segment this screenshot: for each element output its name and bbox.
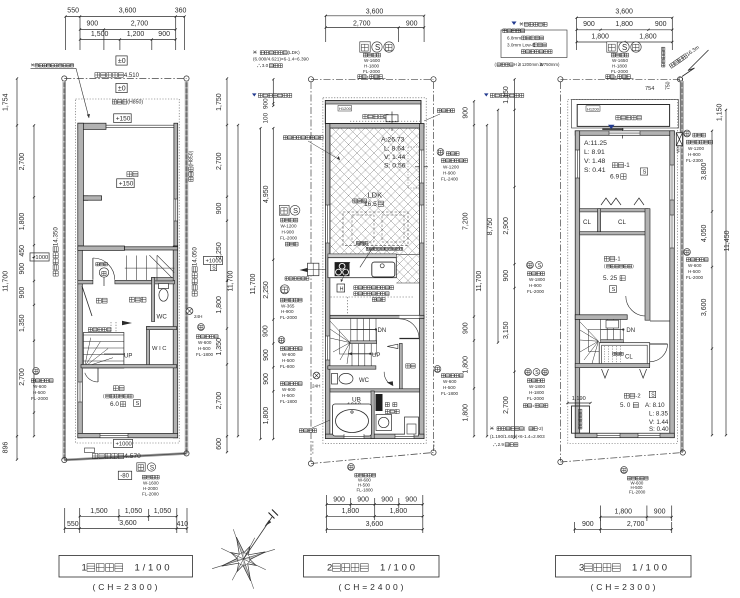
svg-text:900: 900 <box>655 21 667 28</box>
svg-text:H-500: H-500 <box>33 390 46 395</box>
svg-text:1,800: 1,800 <box>463 404 470 422</box>
svg-text:W-1200: W-1200 <box>281 224 297 229</box>
svg-text:1,754: 1,754 <box>3 93 10 111</box>
svg-text:3,600: 3,600 <box>701 298 708 316</box>
svg-text:S: S <box>622 43 627 52</box>
svg-text:2,250: 2,250 <box>216 242 223 260</box>
svg-text:1,500: 1,500 <box>91 31 109 38</box>
svg-text:A:11.25: A:11.25 <box>584 140 607 147</box>
svg-text:900: 900 <box>87 21 99 28</box>
svg-text:896: 896 <box>3 442 10 454</box>
svg-text:1/100: 1/100 <box>135 562 170 573</box>
svg-text:W-1650: W-1650 <box>612 58 628 63</box>
svg-text:S: S <box>538 263 542 269</box>
svg-text:FL-2000: FL-2000 <box>280 236 298 241</box>
svg-text:11,700: 11,700 <box>3 271 10 292</box>
svg-text:750mm): 750mm) <box>544 62 560 67</box>
svg-text:4.510: 4.510 <box>124 73 140 79</box>
svg-text:S: S <box>212 265 216 271</box>
svg-text:S: S <box>150 464 154 471</box>
svg-text:V: 1.44: V: 1.44 <box>384 154 406 161</box>
svg-text:900: 900 <box>405 497 417 504</box>
svg-text:14.350: 14.350 <box>53 227 60 246</box>
svg-text:H-500: H-500 <box>282 393 295 398</box>
svg-text:550: 550 <box>67 521 79 528</box>
svg-text:V: 1.48: V: 1.48 <box>584 158 606 165</box>
svg-text:3,600: 3,600 <box>366 8 384 15</box>
svg-text:1,750: 1,750 <box>216 93 223 111</box>
svg-text:6.8mm: 6.8mm <box>507 35 521 40</box>
svg-text:2,900: 2,900 <box>503 217 510 235</box>
svg-text:3.0: 3.0 <box>262 63 269 68</box>
svg-text:+150: +150 <box>119 181 134 188</box>
svg-text:A:26.73: A:26.73 <box>381 137 405 144</box>
svg-text:L: 8.35: L: 8.35 <box>649 411 668 418</box>
svg-text:UP: UP <box>372 353 380 359</box>
svg-text:H-1800: H-1800 <box>612 64 628 69</box>
svg-text:-80: -80 <box>120 474 129 480</box>
svg-text:3,600: 3,600 <box>615 9 633 16</box>
svg-text:S: 0.41: S: 0.41 <box>584 167 606 174</box>
svg-text:FL-2000: FL-2000 <box>527 396 545 401</box>
svg-text:2,700: 2,700 <box>353 20 371 27</box>
svg-text:CL: CL <box>618 219 626 226</box>
svg-text:WM: WM <box>676 145 681 153</box>
svg-text:550: 550 <box>67 8 79 15</box>
svg-text:W-1800: W-1800 <box>529 277 545 282</box>
svg-text:(CH=2400): (CH=2400) <box>339 582 404 592</box>
svg-text:2,700: 2,700 <box>19 153 26 171</box>
svg-text:S: S <box>535 370 539 376</box>
svg-text:900: 900 <box>263 373 270 385</box>
svg-text:H1200: H1200 <box>339 106 352 111</box>
svg-text:900: 900 <box>19 263 26 275</box>
svg-text:900: 900 <box>654 509 666 516</box>
svg-text:1,800: 1,800 <box>342 508 360 515</box>
svg-text:7,200: 7,200 <box>463 212 470 230</box>
svg-text:1,050: 1,050 <box>125 508 143 515</box>
svg-text:W-1800: W-1800 <box>529 384 545 389</box>
svg-text:754: 754 <box>645 86 654 92</box>
svg-text:2.9: 2.9 <box>498 442 505 447</box>
svg-text:1,150: 1,150 <box>717 103 724 121</box>
svg-text:2,700: 2,700 <box>216 392 223 410</box>
svg-text:(CH=2300): (CH=2300) <box>93 582 158 592</box>
svg-text:FL-1800: FL-1800 <box>357 488 374 493</box>
svg-text:11,700: 11,700 <box>228 271 235 292</box>
svg-text:900: 900 <box>381 497 393 504</box>
svg-text:6.0: 6.0 <box>110 401 119 408</box>
svg-text:DN: DN <box>378 328 387 334</box>
svg-text:900: 900 <box>463 107 470 119</box>
svg-text:W-1200: W-1200 <box>688 146 704 151</box>
svg-text:H: H <box>340 287 344 293</box>
svg-text:(6.000/4.621)×6-1.4=6.390: (6.000/4.621)×6-1.4=6.390 <box>253 57 309 62</box>
svg-text:3,600: 3,600 <box>119 520 137 527</box>
svg-text:W I C: W I C <box>152 346 167 352</box>
svg-text:H-900: H-900 <box>529 283 542 288</box>
svg-text:W-600: W-600 <box>443 379 457 384</box>
svg-text:1/100: 1/100 <box>380 562 415 573</box>
svg-text:(H850): (H850) <box>127 100 143 106</box>
svg-text:24H: 24H <box>194 314 202 319</box>
svg-text:1,800: 1,800 <box>19 213 26 231</box>
svg-text:3,600: 3,600 <box>119 8 137 15</box>
svg-text:900: 900 <box>263 325 270 337</box>
svg-text:FL-2000: FL-2000 <box>629 490 646 495</box>
svg-text:(H850): (H850) <box>189 150 195 166</box>
svg-text:1,800: 1,800 <box>615 509 633 516</box>
svg-text:1/100: 1/100 <box>632 562 667 573</box>
svg-text:900: 900 <box>158 31 170 38</box>
svg-text:2,700: 2,700 <box>19 368 26 386</box>
svg-text:H-900: H-900 <box>282 230 295 235</box>
svg-text:H-1800: H-1800 <box>529 390 545 395</box>
svg-text:2,700: 2,700 <box>216 152 223 170</box>
svg-text:1: 1 <box>82 562 87 573</box>
svg-text:S: S <box>651 392 655 398</box>
svg-text:16.5: 16.5 <box>364 201 377 208</box>
svg-text:24H: 24H <box>312 384 320 389</box>
svg-text:S: S <box>136 401 140 407</box>
svg-text:L: 8.64: L: 8.64 <box>384 146 405 153</box>
svg-text:V: 1.44: V: 1.44 <box>649 419 669 426</box>
svg-text:900: 900 <box>333 497 345 504</box>
svg-text:FL-2300: FL-2300 <box>686 158 704 163</box>
svg-text:-1: -1 <box>624 162 630 169</box>
svg-text:2,700: 2,700 <box>627 521 645 528</box>
svg-text:1,050: 1,050 <box>154 508 172 515</box>
svg-text:H1200: H1200 <box>587 106 600 111</box>
svg-text:900: 900 <box>263 98 270 109</box>
svg-text:L: 8.91: L: 8.91 <box>584 149 605 156</box>
svg-text:S: 0.40: S: 0.40 <box>649 426 669 433</box>
svg-text:CL: CL <box>625 355 633 361</box>
svg-text:S: 0.56: S: 0.56 <box>384 163 406 170</box>
svg-text:2,700: 2,700 <box>131 21 149 28</box>
svg-text:-1: -1 <box>615 257 620 263</box>
svg-text:900: 900 <box>463 322 470 334</box>
svg-text:H-500: H-500 <box>443 385 456 390</box>
svg-text:1,350: 1,350 <box>19 314 26 332</box>
svg-text:1,800: 1,800 <box>216 296 223 314</box>
svg-text:3.0mm Low-E: 3.0mm Low-E <box>507 42 535 47</box>
svg-text:WC: WC <box>359 378 370 384</box>
svg-text:450: 450 <box>19 245 26 257</box>
svg-text:FL-2000: FL-2000 <box>363 69 381 74</box>
svg-text:W-1200: W-1200 <box>443 165 459 170</box>
svg-text:-2: -2 <box>635 394 640 400</box>
svg-text:5. 0: 5. 0 <box>620 402 631 409</box>
svg-text:3,800: 3,800 <box>701 162 708 180</box>
svg-text:14.050: 14.050 <box>192 247 199 266</box>
svg-text:W-365: W-365 <box>281 304 295 309</box>
svg-text:900: 900 <box>357 497 369 504</box>
svg-text:1,800: 1,800 <box>591 34 609 41</box>
svg-text:H-2000: H-2000 <box>143 486 158 491</box>
svg-text:900: 900 <box>583 21 595 28</box>
svg-text:FL-1800: FL-1800 <box>441 391 459 396</box>
svg-text:+1000: +1000 <box>116 442 132 448</box>
svg-text:H-900: H-900 <box>281 309 294 314</box>
svg-text:900: 900 <box>216 203 223 215</box>
svg-text:A: 8.10: A: 8.10 <box>645 402 665 409</box>
svg-text:H-500: H-500 <box>282 358 295 363</box>
svg-text:W-1600: W-1600 <box>364 58 380 63</box>
svg-text:FL-2000: FL-2000 <box>611 69 629 74</box>
svg-text:S: S <box>612 287 616 293</box>
svg-text:4,050: 4,050 <box>701 224 708 242</box>
svg-text:2: 2 <box>327 562 332 573</box>
svg-text:FL-2000: FL-2000 <box>31 396 49 401</box>
svg-text:11,700: 11,700 <box>250 274 257 295</box>
svg-text:FL-2000: FL-2000 <box>280 315 298 320</box>
svg-text:11,700: 11,700 <box>476 271 483 292</box>
svg-text:W-600: W-600 <box>33 384 47 389</box>
svg-text:750: 750 <box>666 81 672 90</box>
svg-text:4,950: 4,950 <box>263 185 270 203</box>
svg-text:LDK: LDK <box>368 191 383 200</box>
svg-text:FL-2000: FL-2000 <box>142 492 159 497</box>
svg-text:1,200: 1,200 <box>127 31 145 38</box>
svg-text:4.570: 4.570 <box>124 453 141 460</box>
svg-text:CL: CL <box>583 219 591 226</box>
svg-text:FL-2000: FL-2000 <box>686 275 704 280</box>
svg-text:6.9: 6.9 <box>610 174 619 181</box>
svg-text:1,350: 1,350 <box>216 338 223 356</box>
svg-text:FL-800: FL-800 <box>280 364 295 369</box>
svg-text:100: 100 <box>263 112 270 123</box>
svg-text:W-600: W-600 <box>198 340 212 345</box>
svg-text:900: 900 <box>406 20 418 27</box>
svg-text:360: 360 <box>175 8 187 15</box>
svg-text:900: 900 <box>19 287 26 299</box>
svg-text:H-1800: H-1800 <box>364 64 380 69</box>
svg-text:S: S <box>375 43 380 52</box>
svg-text:H-500: H-500 <box>688 269 701 274</box>
svg-text:FL-2000: FL-2000 <box>527 289 545 294</box>
svg-text:1,800: 1,800 <box>390 508 408 515</box>
svg-text:2,250: 2,250 <box>263 281 270 299</box>
svg-text:WC: WC <box>157 314 168 321</box>
svg-text:-2): -2) <box>538 426 544 431</box>
svg-text:1,800: 1,800 <box>639 34 657 41</box>
svg-text:H-900: H-900 <box>443 171 456 176</box>
svg-text:8,750: 8,750 <box>487 218 494 236</box>
svg-text:±0: ±0 <box>118 86 126 93</box>
svg-text:H: H <box>514 62 517 67</box>
svg-text:1,800: 1,800 <box>263 407 270 425</box>
svg-text:H-500: H-500 <box>198 346 211 351</box>
svg-text:S: S <box>293 206 298 215</box>
svg-text:2,700: 2,700 <box>503 396 510 414</box>
svg-text:W-600: W-600 <box>688 263 702 268</box>
svg-text:1,800: 1,800 <box>615 21 633 28</box>
svg-text:5. 25: 5. 25 <box>603 275 618 282</box>
svg-text:410: 410 <box>177 521 189 528</box>
svg-text:+150: +150 <box>116 116 131 123</box>
svg-text:11,450: 11,450 <box>724 230 731 251</box>
svg-text:600: 600 <box>216 438 223 450</box>
svg-text:H-900: H-900 <box>688 152 701 157</box>
svg-text:1,800: 1,800 <box>462 356 469 374</box>
svg-text:900: 900 <box>503 270 510 282</box>
svg-text:W-600: W-600 <box>282 387 296 392</box>
svg-text:+1000: +1000 <box>32 255 48 261</box>
svg-text:1,500: 1,500 <box>90 508 108 515</box>
svg-text:3,600: 3,600 <box>366 521 384 528</box>
svg-text:W-600: W-600 <box>282 352 296 357</box>
svg-text:3: 3 <box>579 562 584 573</box>
svg-text:(LDK): (LDK) <box>288 50 301 55</box>
svg-text:900: 900 <box>263 349 270 361</box>
svg-text:(1.190/1.659)×6-1.4=2.903: (1.190/1.659)×6-1.4=2.903 <box>490 434 545 439</box>
svg-text:(CH=2300): (CH=2300) <box>591 582 656 592</box>
svg-text:±0: ±0 <box>118 58 126 65</box>
svg-text:900: 900 <box>582 521 594 528</box>
svg-text:S: S <box>643 170 647 176</box>
svg-text:FL-2400: FL-2400 <box>441 177 459 182</box>
svg-text:UP: UP <box>124 354 132 360</box>
svg-text:FL-1800: FL-1800 <box>280 399 298 404</box>
svg-text:W-1600: W-1600 <box>143 481 159 486</box>
svg-text:3,150: 3,150 <box>503 321 510 339</box>
svg-text:FL-1800: FL-1800 <box>196 352 214 357</box>
svg-text:DN: DN <box>626 328 635 334</box>
svg-text:1,190: 1,190 <box>572 396 586 402</box>
